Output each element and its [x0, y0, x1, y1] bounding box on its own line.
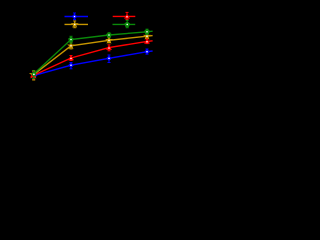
data series-1 line (blue diamond) — [31, 49, 152, 80]
legend entry 2 sample (gold star) — [65, 20, 89, 28]
legend entry 3 sample (red triangle) — [113, 12, 136, 19]
legend entry 4 sample (green pentagon) — [113, 20, 136, 27]
data series-2 line (gold star) — [29, 32, 153, 80]
chart background — [0, 0, 165, 105]
data series-4 line (green pentagon) — [31, 29, 152, 79]
cluster white center dot — [33, 74, 35, 76]
legend entry 1 sample (blue diamond) — [65, 13, 89, 20]
data series-3 line (red triangle) — [30, 38, 153, 79]
